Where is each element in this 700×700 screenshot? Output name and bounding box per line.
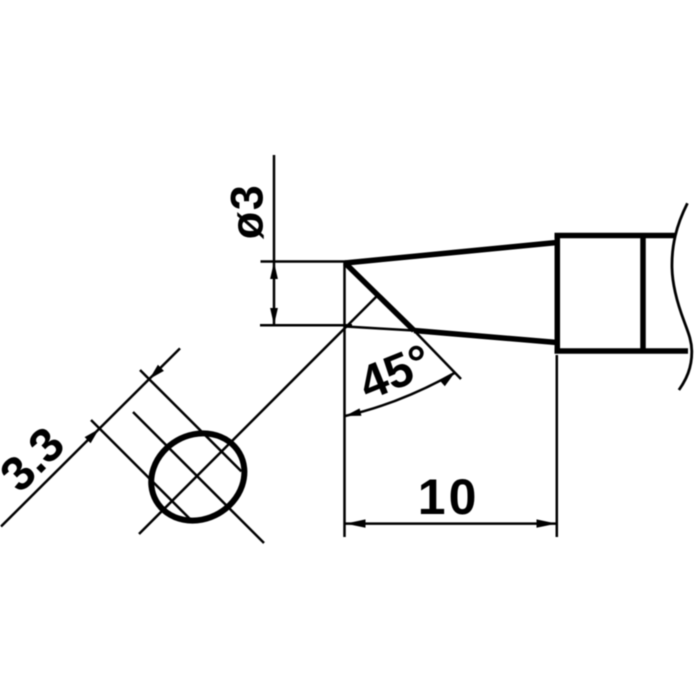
body rectangle left edge [555, 233, 561, 354]
top taper edge [345, 243, 557, 264]
svg-text:ø3: ø3 [222, 184, 273, 240]
label 45 deg [352, 335, 439, 411]
crosshair line through face [133, 412, 264, 543]
angle arc 45 [345, 373, 455, 416]
bevel cut edge [345, 263, 414, 331]
svg-text:10: 10 [418, 469, 480, 525]
extension line top (o3) [261, 260, 347, 263]
dimension line 10 [346, 519, 557, 527]
body rectangle top edge [555, 233, 676, 239]
extension line upper (3.3) [140, 370, 241, 471]
break squiggle [672, 203, 692, 390]
extension line vertical right (10) [556, 355, 559, 537]
dimension line o3 vertical [270, 155, 278, 325]
bevel extension line (45 deg) [414, 331, 461, 380]
svg-text:3.3: 3.3 [0, 417, 75, 502]
dimension line 3.3 diagonal [1, 348, 180, 526]
body rectangle bottom edge [555, 348, 689, 354]
extension line vertical left (10) [343, 262, 346, 537]
svg-text:45°: 45° [352, 335, 439, 411]
tip face ellipse [135, 417, 260, 538]
bottom taper edge [414, 331, 557, 343]
axis centerline diagonal [139, 295, 378, 534]
body divider line [640, 233, 646, 354]
extension line lower (3.3) [91, 420, 190, 519]
extension line bottom (o3) [260, 324, 352, 327]
label 3.3 [0, 417, 75, 502]
label o3 [222, 184, 273, 240]
bevel bottom thin segment [346, 327, 414, 331]
